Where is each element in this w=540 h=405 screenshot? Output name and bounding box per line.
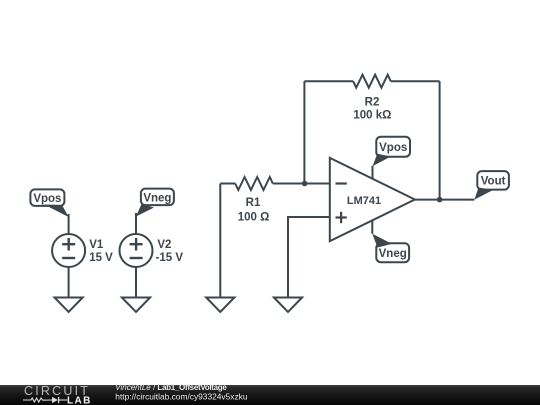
svg-text:R2: R2 (365, 97, 380, 109)
resistor R1 (220, 177, 329, 190)
svg-text:-15 V: -15 V (156, 252, 184, 264)
wire plus input (288, 217, 330, 298)
CircuitLab logo (23, 384, 92, 405)
svg-text:15 V: 15 V (89, 252, 113, 264)
svg-text:LM741: LM741 (347, 195, 381, 207)
svg-text:100 Ω: 100 Ω (238, 212, 270, 224)
svg-text:100 kΩ: 100 kΩ (353, 109, 391, 121)
net flag Vpos at V1 (30, 189, 68, 217)
label V1 value (89, 239, 113, 264)
svg-text:LAB: LAB (67, 395, 92, 405)
ground G3 under R1 (206, 298, 234, 313)
node junction at R1/R2 tap (302, 181, 308, 187)
net flag Vneg at V2 (136, 189, 174, 217)
node junction at output (437, 197, 443, 203)
svg-text:http://circuitlab.com/cy93324v: http://circuitlab.com/cy93324v5xzku (115, 392, 248, 402)
svg-text:Vpos: Vpos (33, 193, 61, 205)
net flag Vout (474, 171, 509, 200)
wire op-amp V+ pin stub (372, 166, 374, 179)
svg-text:Vout: Vout (481, 176, 506, 188)
voltage source V1 (52, 234, 85, 267)
ground G2 (122, 298, 150, 313)
wire V2 top (135, 213, 137, 234)
ground G1 (55, 298, 83, 313)
wire R2 right vertical (439, 81, 441, 199)
wire R1 left vertical (219, 184, 221, 298)
net flag Vpos at op-amp V+ (373, 137, 411, 167)
op-amp U1 LM741 (330, 158, 415, 241)
label V2 value (156, 239, 184, 264)
svg-text:Vneg: Vneg (379, 248, 407, 260)
wire V1 bottom (68, 268, 70, 298)
wire R2 left vertical (303, 81, 305, 183)
wire V1 top (68, 214, 70, 234)
wire op-amp V- pin stub (371, 221, 373, 234)
footer bar (0, 385, 540, 405)
voltage source V2 (120, 234, 153, 267)
svg-text:R1: R1 (246, 197, 261, 209)
ground G4 under plus input (274, 298, 302, 313)
svg-text:Vneg: Vneg (143, 192, 171, 204)
net flag Vneg at op-amp V- (372, 234, 409, 263)
wire output (415, 199, 475, 201)
footer title text (115, 383, 248, 402)
label R2 value (353, 97, 391, 122)
label R1 value (238, 197, 270, 224)
resistor R2 (304, 75, 439, 88)
wire V2 bottom (135, 268, 137, 298)
svg-text:Vpos: Vpos (379, 142, 407, 154)
svg-text:V1: V1 (89, 239, 104, 251)
svg-text:V2: V2 (157, 239, 171, 251)
